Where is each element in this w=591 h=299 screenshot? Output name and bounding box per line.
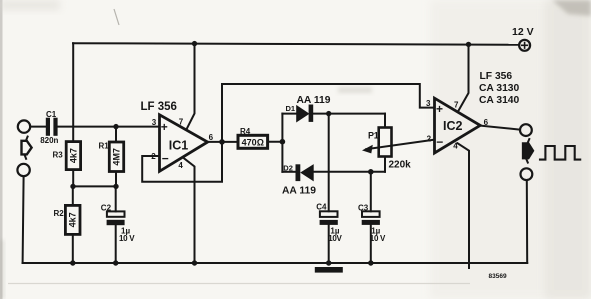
svg-text:IC2: IC2 <box>443 119 463 133</box>
svg-text:+: + <box>161 120 168 134</box>
svg-text:6: 6 <box>209 133 214 142</box>
svg-text:10V: 10V <box>328 234 342 243</box>
svg-text:4: 4 <box>453 142 458 151</box>
node: D1 / C4 junction <box>326 111 331 116</box>
svg-text:AA 119: AA 119 <box>282 185 316 196</box>
wire: C4 vertical <box>328 114 330 212</box>
svg-text:220k: 220k <box>389 160 412 171</box>
wire: IC1 pin7 to rail <box>187 43 195 129</box>
node: R4 right / diode branch <box>280 139 286 145</box>
resistor R1 4M7 <box>109 142 123 172</box>
svg-text:4: 4 <box>178 161 183 170</box>
svg-text:C1: C1 <box>46 110 57 119</box>
wire: IC2 pin6 to output <box>480 126 520 130</box>
svg-text:10 V: 10 V <box>370 234 386 243</box>
svg-text:C2: C2 <box>101 204 112 213</box>
svg-text:R3: R3 <box>53 151 64 160</box>
node: rail/R2 <box>70 260 75 265</box>
terminal: input top circle <box>18 120 30 132</box>
output plug symbol <box>523 143 534 159</box>
svg-text:10 V: 10 V <box>119 234 135 243</box>
svg-text:CA 3130: CA 3130 <box>479 83 520 94</box>
capacitor C1 820n <box>46 118 50 136</box>
ground rail <box>23 262 528 264</box>
resistor R4 470 ohm <box>222 141 238 143</box>
square wave symbol <box>540 146 580 160</box>
wire: IC2 pin7 to rail <box>459 44 469 110</box>
node: R1/C2 junction <box>113 184 118 189</box>
resistor R3 4k7 <box>66 142 80 170</box>
potentiometer P1 220k <box>384 114 386 128</box>
svg-text:LF 356: LF 356 <box>480 71 513 82</box>
node: rail/IC1 pin4 <box>192 260 197 265</box>
node: output junction <box>219 139 225 145</box>
wire: IC1 pin6 output stub <box>208 141 222 143</box>
capacitor C3 1u electrolytic <box>362 211 380 217</box>
wire: diode branch vertical <box>281 114 283 172</box>
svg-text:R4: R4 <box>240 127 251 136</box>
svg-text:P1: P1 <box>368 131 379 141</box>
svg-text:4k7: 4k7 <box>68 212 78 227</box>
resistor R2 4k7 <box>65 205 80 234</box>
op-amp IC2 <box>435 98 481 153</box>
svg-text:D1: D1 <box>286 104 296 113</box>
wire: node to R2 <box>72 186 74 205</box>
svg-text:D2: D2 <box>283 163 293 172</box>
diode D2 AA119 <box>282 171 295 173</box>
terminal: output top circle <box>520 124 532 136</box>
terminal: output bottom circle <box>521 168 533 180</box>
svg-text:IC1: IC1 <box>169 139 189 153</box>
svg-text:−: − <box>436 135 443 149</box>
wire: IC1 pin4 to ground rail <box>184 159 194 263</box>
svg-text:2: 2 <box>151 152 156 161</box>
wire: R1 bottom lead <box>115 172 117 187</box>
node: rail/C3 <box>368 260 373 265</box>
node: rail / IC1 pin7 junction <box>192 41 197 46</box>
terminal: 12V supply <box>519 40 530 51</box>
svg-text:C3: C3 <box>358 204 369 213</box>
svg-text:−: − <box>162 152 169 166</box>
node: wire / R1 top <box>113 124 118 129</box>
svg-text:CA 3140: CA 3140 <box>479 95 520 106</box>
terminal: input bottom circle <box>17 164 29 176</box>
wire: top link to IC2 pin3 <box>222 84 435 108</box>
wire: IC2 pin4 to ground rail <box>458 143 470 268</box>
input plug symbol <box>22 141 32 155</box>
svg-text:C4: C4 <box>316 203 327 212</box>
wire: input to C1 <box>30 126 46 128</box>
svg-text:+: + <box>436 102 443 116</box>
svg-text:12 V: 12 V <box>512 26 534 38</box>
svg-text:2: 2 <box>427 134 432 143</box>
svg-text:LF 356: LF 356 <box>141 101 177 113</box>
capacitor C2 1u electrolytic <box>115 186 117 211</box>
wire: C1 to IC1 pin3 <box>58 126 160 128</box>
svg-text:820n: 820n <box>40 136 58 145</box>
wire: rail left drop to R3 <box>72 43 74 142</box>
svg-text:7: 7 <box>179 118 184 127</box>
svg-text:470Ω: 470Ω <box>242 137 264 147</box>
svg-text:R2: R2 <box>54 209 65 218</box>
wire: IC1 pin2 feedback loop <box>142 84 222 182</box>
svg-text:7: 7 <box>454 101 459 110</box>
svg-text:3: 3 <box>426 99 431 108</box>
node: rail/C4 <box>326 260 331 265</box>
node: R3/R2 junction <box>70 184 75 189</box>
node: D2 row / C3 junction <box>368 169 374 175</box>
svg-text:3: 3 <box>152 118 157 127</box>
svg-text:6: 6 <box>484 118 489 127</box>
node: rail/C2 <box>113 260 118 265</box>
svg-text:4k7: 4k7 <box>68 148 78 163</box>
svg-text:83569: 83569 <box>489 273 507 280</box>
wire: C3 vertical <box>370 172 372 212</box>
top supply rail <box>73 43 519 45</box>
capacitor C4 1u electrolytic <box>320 211 338 217</box>
wire: output bottom to rail <box>526 180 528 263</box>
wire: R1 top lead <box>115 127 117 142</box>
wire: P1 wiper to IC2 pin2 <box>366 140 435 150</box>
svg-text:4M7: 4M7 <box>112 148 122 166</box>
ground symbol <box>315 267 343 273</box>
svg-text:AA 119: AA 119 <box>297 95 331 106</box>
wire: input bottom to ground rail <box>23 176 24 263</box>
node: rail / IC2 pin7 junction <box>466 42 471 47</box>
wire: bias node horizontal <box>73 185 116 187</box>
svg-text:R1: R1 <box>99 142 110 151</box>
wire: R3 bottom to node <box>72 170 74 187</box>
op-amp IC1 LF356 <box>160 115 208 172</box>
wire: R2 to ground rail <box>72 234 74 263</box>
diode D1 AA119 <box>282 113 296 115</box>
